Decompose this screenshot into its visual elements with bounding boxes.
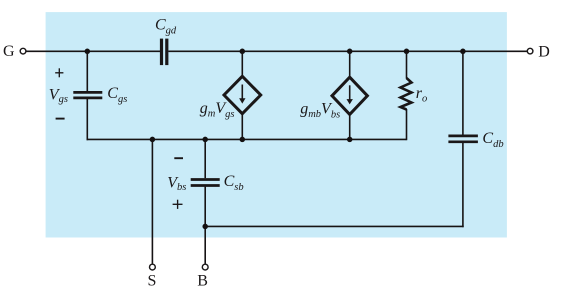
node gmb source bottom — [347, 137, 353, 143]
Vbs polarity minus — [174, 157, 183, 159]
wire body column lower — [204, 187, 206, 264]
Vgs polarity minus — [56, 118, 65, 120]
node gmb source top — [347, 49, 353, 55]
resistor ro — [401, 78, 428, 110]
node ro top — [404, 49, 410, 55]
model boundary shading — [46, 12, 507, 237]
wire top right (Cgd to D) — [168, 50, 527, 52]
wire gmb source bottom lead — [349, 114, 351, 139]
svg-text:B: B — [197, 273, 208, 290]
wire ro bottom lead — [406, 109, 408, 140]
wire top left (G to Cgd) — [26, 50, 160, 52]
capacitor Cgs — [73, 85, 127, 105]
wire ro top lead — [406, 51, 408, 78]
terminal S — [148, 264, 157, 289]
node Cdb top — [460, 49, 466, 55]
wire gm source top lead — [241, 51, 243, 77]
svg-text:G: G — [3, 43, 15, 60]
wire Cdb top lead — [462, 51, 464, 135]
wire gm source bottom lead — [241, 114, 243, 140]
node S on middle rail — [150, 137, 156, 143]
capacitor Csb — [191, 173, 244, 193]
wire body column upper — [204, 139, 206, 178]
wire gate column upper — [86, 51, 88, 91]
svg-text:S: S — [148, 273, 157, 290]
Vgs polarity plus — [55, 68, 63, 77]
node B on middle rail — [202, 137, 208, 143]
wire middle rail — [87, 138, 407, 140]
wire source column (S) — [151, 139, 153, 263]
wire Cdb bottom lead — [462, 143, 464, 227]
dependent source gmVgs — [224, 76, 261, 113]
wire gate column lower — [86, 99, 88, 140]
Vbs polarity plus — [173, 200, 183, 209]
capacitor Cdb — [448, 130, 503, 150]
wire gmb source top lead — [349, 51, 351, 78]
node at gate column top — [85, 49, 91, 55]
terminal G — [3, 43, 26, 60]
dependent source gmbVbs — [332, 77, 367, 114]
terminal D — [527, 43, 549, 60]
terminal B — [197, 264, 208, 289]
node body/bottom-rail junction — [202, 224, 208, 230]
node gm source bottom — [240, 137, 246, 143]
wire bottom rail (B to Cdb) — [205, 225, 464, 227]
node gm source top — [240, 49, 246, 55]
capacitor Cgd — [155, 16, 177, 65]
svg-text:D: D — [538, 43, 550, 60]
